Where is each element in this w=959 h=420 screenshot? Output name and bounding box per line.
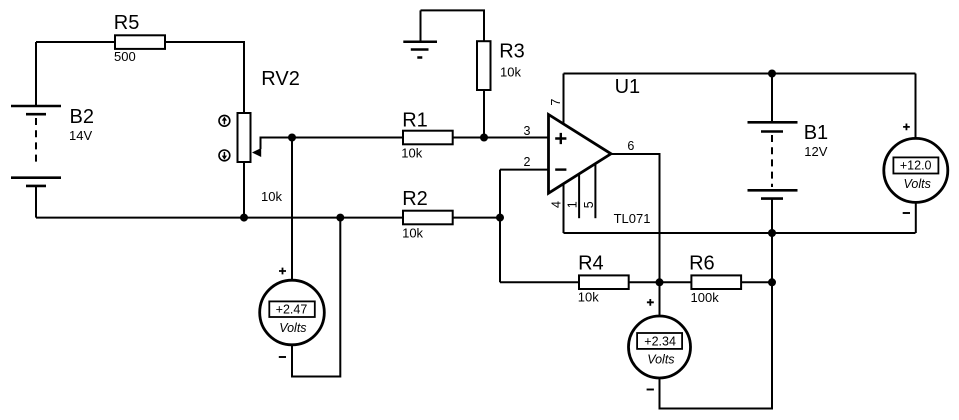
svg-text:3: 3 (524, 124, 531, 138)
wire bottom-left rail (36, 217, 403, 219)
svg-text:+12.0: +12.0 (900, 159, 932, 173)
resistor R3 (477, 41, 491, 90)
potentiometer RV2 (238, 113, 293, 162)
wire R2 to node (453, 217, 500, 219)
pin 1 stub (578, 174, 580, 218)
resistor R6 (691, 275, 741, 289)
wire R5 to RV2 top corner (165, 42, 244, 113)
wire pin 7 (563, 74, 565, 125)
voltmeter M2 +2.34 (629, 282, 773, 408)
battery B2 (11, 106, 61, 186)
svg-text:10k: 10k (402, 225, 423, 240)
node R4/R6 (656, 278, 664, 286)
svg-text:100k: 100k (691, 290, 720, 305)
svg-text:R6: R6 (689, 252, 715, 274)
node B1 top (768, 70, 776, 78)
svg-text:12V: 12V (804, 144, 827, 159)
meter M2 plus (647, 299, 654, 306)
svg-text:2: 2 (524, 155, 531, 169)
svg-text:R3: R3 (499, 41, 525, 63)
svg-text:4: 4 (550, 201, 564, 208)
ground (403, 10, 437, 57)
wire node to R4 (500, 281, 579, 283)
svg-text:7: 7 (549, 99, 563, 106)
svg-text:Volts: Volts (279, 321, 306, 335)
svg-text:+2.47: +2.47 (276, 303, 308, 317)
node meter M1 return (336, 214, 344, 222)
resistor R2 (403, 211, 453, 225)
svg-text:R4: R4 (578, 252, 604, 274)
wire wiper to R1 (292, 137, 403, 139)
resistor R4 (579, 275, 629, 289)
wire R6 to node (741, 281, 772, 283)
wire RV2 bottom to rail (243, 162, 245, 218)
svg-text:Volts: Volts (904, 177, 931, 191)
wire ground to R3 top (421, 10, 485, 41)
svg-text:10k: 10k (401, 146, 422, 161)
wire top rail (564, 73, 916, 75)
svg-text:6: 6 (627, 139, 634, 153)
wire R3 bottom to node (483, 90, 485, 138)
svg-text:U1: U1 (615, 76, 641, 98)
node R6/B1 (768, 278, 776, 286)
svg-text:R1: R1 (402, 109, 428, 131)
svg-text:1: 1 (566, 201, 580, 208)
wire pin 2 horizontal (500, 169, 549, 171)
svg-text:R2: R2 (402, 188, 428, 210)
wire R1 to op-amp pin 3 (453, 137, 549, 139)
node R3/R1 (480, 134, 488, 142)
wire left rail top stub (35, 42, 37, 106)
wire B2 bottom stub (35, 186, 37, 218)
svg-text:5: 5 (582, 201, 596, 208)
pin 5 stub (594, 164, 596, 218)
node RV2 bottom (240, 214, 248, 222)
wire bottom rail (564, 232, 916, 234)
svg-text:RV2: RV2 (261, 68, 300, 90)
svg-text:+2.34: +2.34 (644, 334, 676, 348)
wire pin2 branch vertical (499, 170, 501, 283)
svg-text:10k: 10k (261, 189, 282, 204)
svg-text:Volts: Volts (647, 353, 674, 367)
svg-text:10k: 10k (578, 289, 599, 304)
voltmeter M1 +2.47 (260, 138, 341, 377)
svg-text:14V: 14V (69, 128, 92, 143)
svg-text:B1: B1 (804, 122, 828, 144)
wire pin 4 (563, 184, 565, 234)
wire pin 6 output (611, 154, 660, 282)
meter M1 plus (279, 268, 286, 275)
wire R4 to node (629, 281, 692, 283)
battery B1 (748, 74, 798, 234)
svg-text:B2: B2 (70, 106, 94, 128)
wire B1 node to R6 node (771, 233, 773, 282)
node wiper/R1 (288, 134, 296, 142)
resistor R5 (115, 35, 165, 49)
voltmeter M3 +12.0 (884, 74, 948, 234)
svg-text:R5: R5 (114, 12, 140, 34)
circled up arrow (219, 115, 230, 126)
svg-text:10k: 10k (500, 65, 521, 80)
op-amp U1 (549, 115, 612, 194)
node R2/pin2 (496, 214, 504, 222)
node B1 bottom (768, 229, 776, 237)
svg-text:TL071: TL071 (614, 211, 651, 226)
meter M3 plus (903, 124, 910, 131)
resistor R1 (403, 131, 453, 145)
wire top-left rail to R5 (36, 41, 115, 43)
circled down arrow (219, 150, 230, 161)
svg-text:500: 500 (114, 49, 136, 64)
